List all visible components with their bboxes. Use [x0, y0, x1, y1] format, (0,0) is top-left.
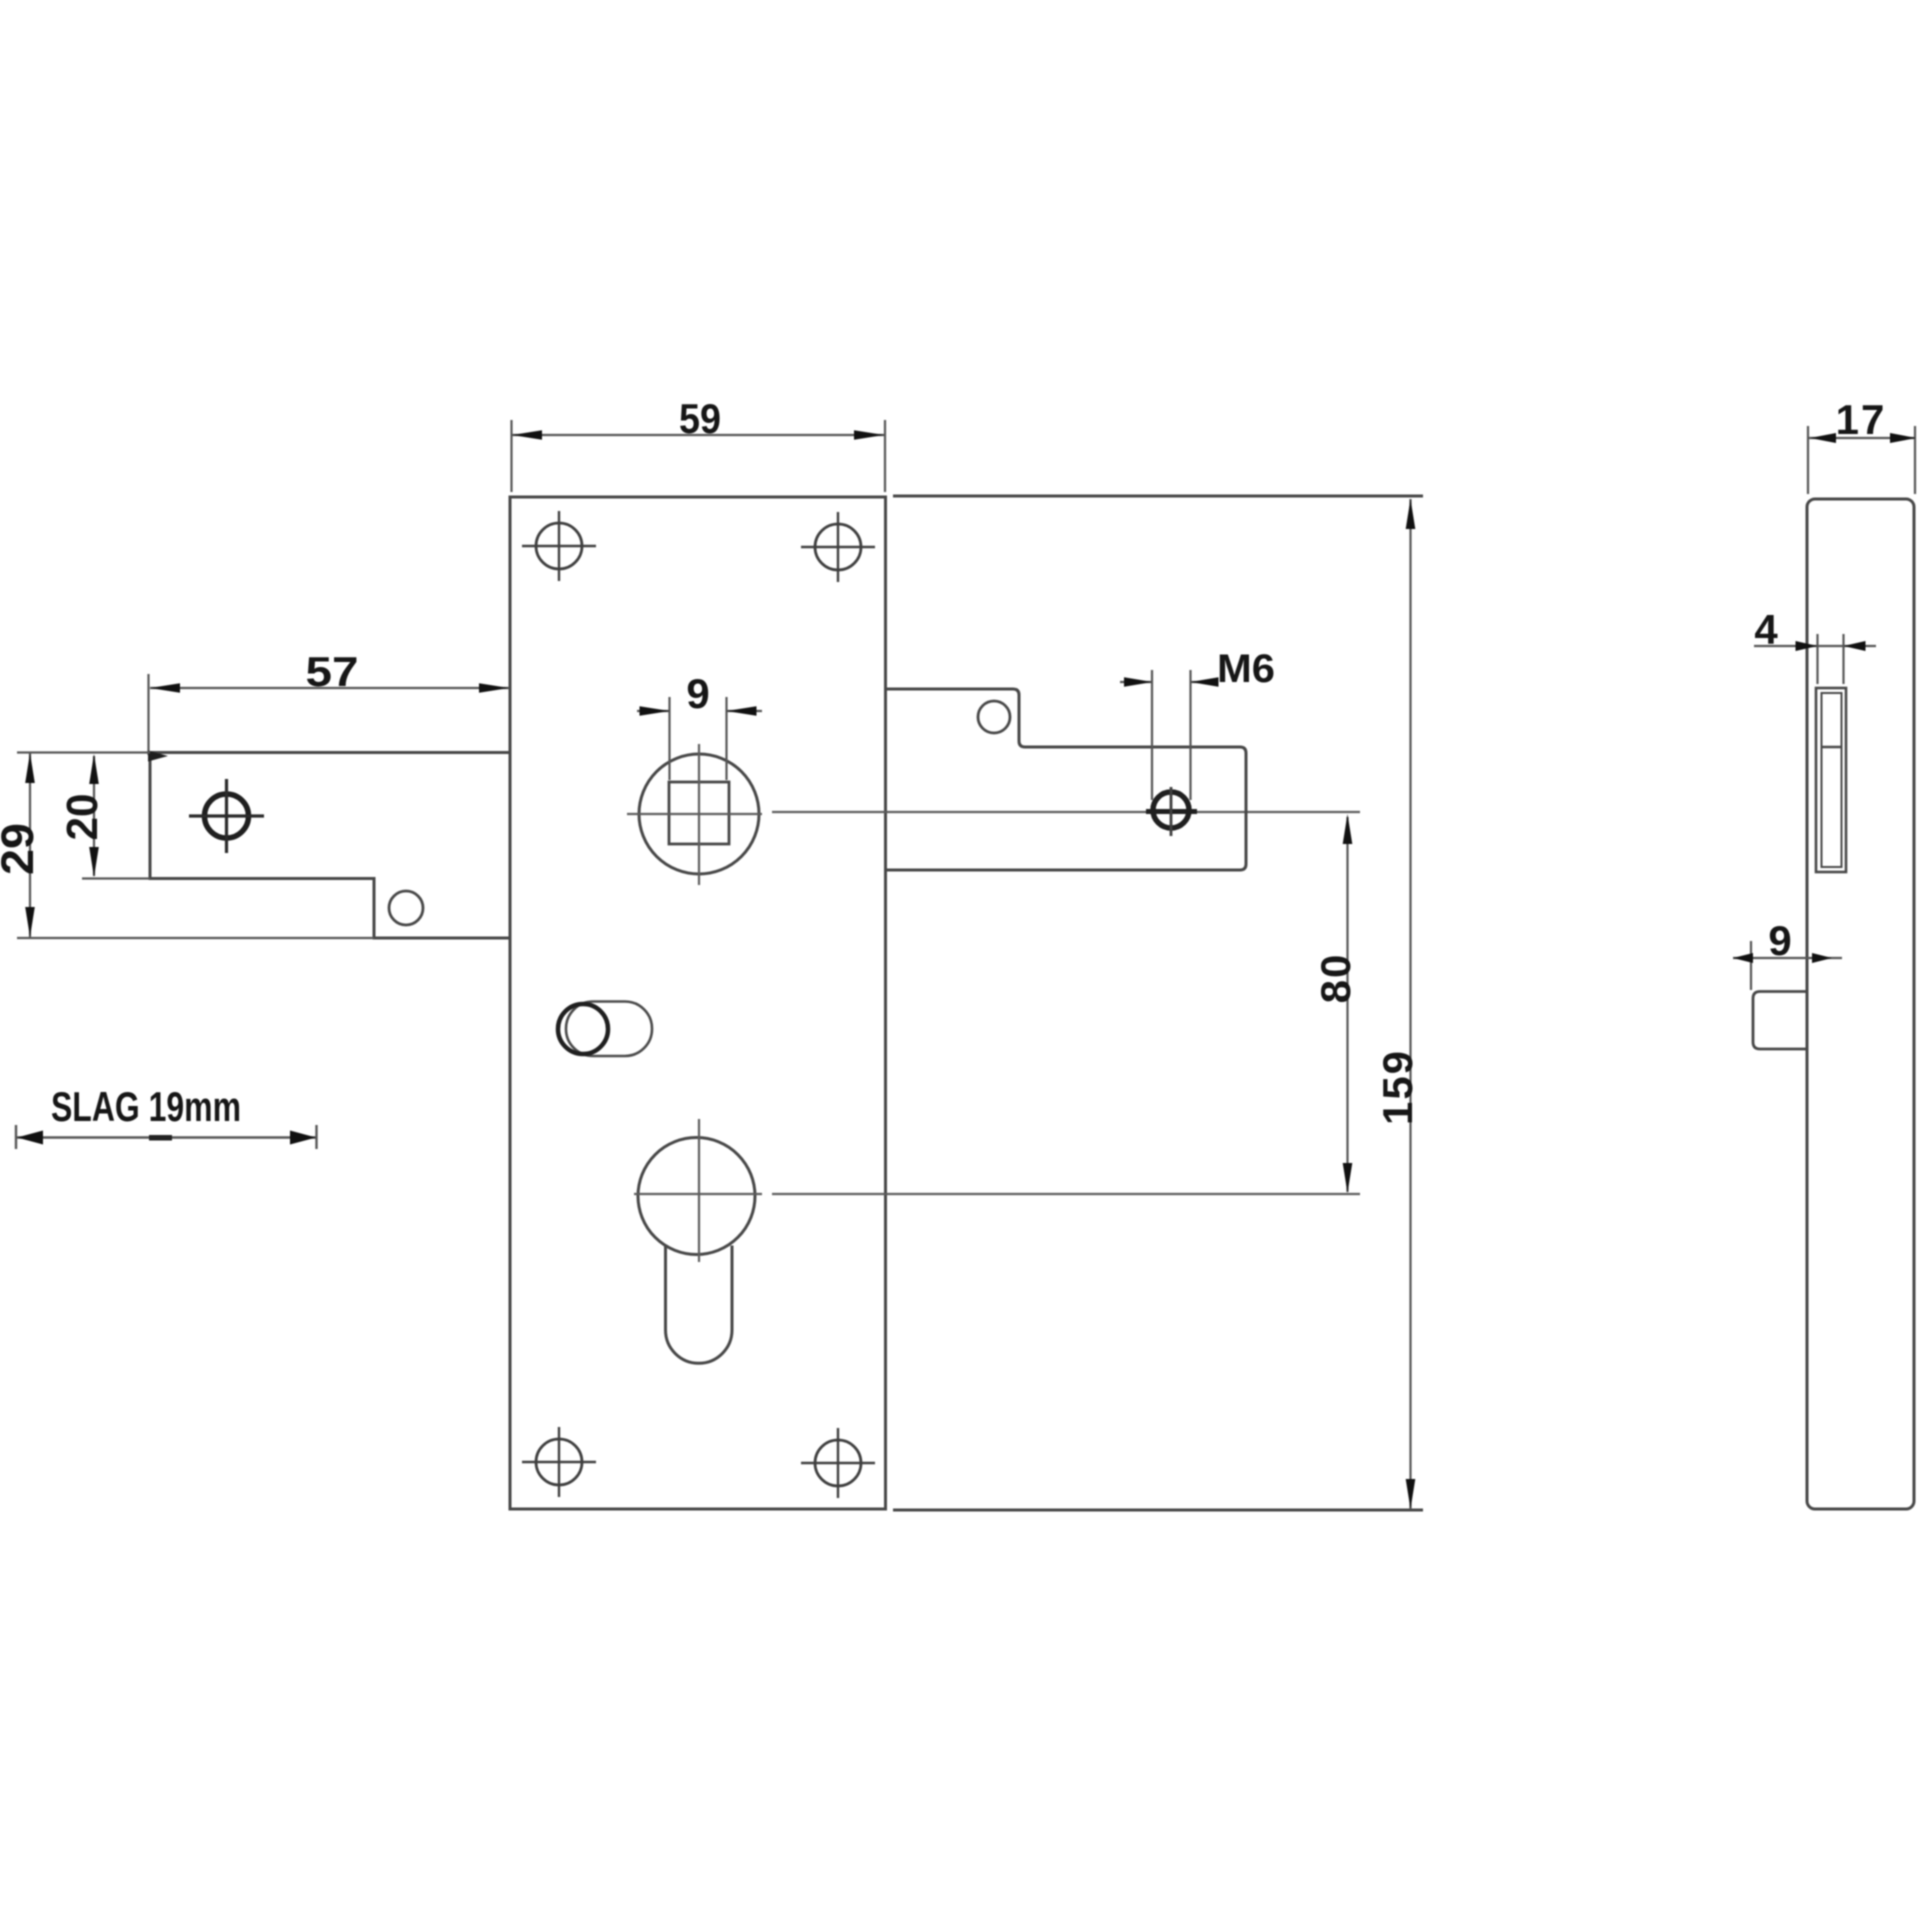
svg-text:9: 9 [686, 670, 709, 717]
bolt tail circle [389, 891, 423, 925]
side plate [1807, 499, 1914, 1509]
spindle centerline horizontal [627, 813, 762, 815]
dim M6 [1120, 670, 1212, 800]
euro cylinder centerline horizontal [634, 1193, 762, 1195]
oval slot disc (bold) [558, 1004, 608, 1054]
dim 17 [1808, 426, 1916, 494]
spindle square [669, 782, 729, 844]
svg-text:59: 59 [679, 395, 721, 442]
latch outline [885, 689, 1246, 870]
svg-text:4: 4 [1754, 606, 1778, 653]
faceplate [510, 497, 886, 1509]
svg-text:17: 17 [1836, 396, 1887, 443]
small artifact arrow at bolt corner [148, 751, 168, 762]
screw hole top-right [801, 512, 875, 582]
svg-text:159: 159 [1374, 1049, 1421, 1125]
screw hole bottom-right [801, 1428, 875, 1498]
oval slot [566, 1002, 652, 1057]
dim 29 [17, 753, 374, 939]
bolt outline [150, 753, 510, 939]
svg-text:9: 9 [1768, 917, 1791, 964]
screw hole bottom-left [522, 1427, 596, 1497]
euro cylinder hole [638, 1138, 755, 1255]
svg-text:80: 80 [1312, 953, 1359, 1004]
dim 9 side [1733, 941, 1842, 990]
svg-text:29: 29 [0, 823, 43, 875]
svg-text:20: 20 [58, 794, 107, 841]
spindle slot side view [1816, 688, 1846, 872]
dim 59 top [512, 420, 886, 492]
dim 20 [82, 756, 150, 879]
svg-text:57: 57 [306, 648, 359, 695]
spindle centerline vertical [698, 744, 700, 885]
lock case bottom edge [893, 1509, 1423, 1512]
screw hole top-left [522, 511, 596, 581]
dim 159 [1409, 499, 1411, 1509]
dim 57 [149, 674, 510, 755]
bolt stub side view [1753, 992, 1807, 1050]
svg-text:SLAG 19mm: SLAG 19mm [51, 1083, 241, 1130]
spindle hole circle [639, 754, 759, 874]
dim 80 [1346, 817, 1348, 1192]
M6 hole (bold) [1153, 792, 1189, 828]
lock case top edge [893, 495, 1423, 498]
dim 4 [1754, 634, 1876, 684]
bolt hole (bold circle with cross) [189, 779, 264, 853]
latch circle [978, 701, 1010, 733]
svg-text:M6: M6 [1217, 647, 1275, 691]
dim 9 spindle [637, 697, 762, 780]
euro cylinder centerline vertical [698, 1119, 700, 1262]
